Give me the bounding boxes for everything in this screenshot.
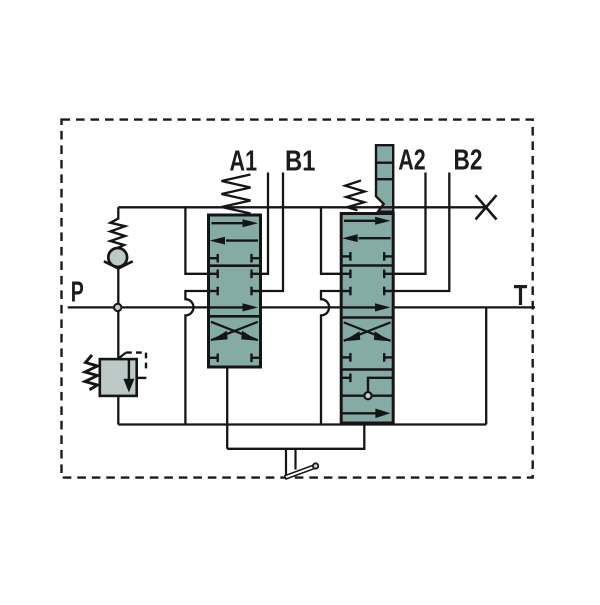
relief valve RV1 internal arrow	[123, 359, 134, 392]
valve V2 position2 P arrow	[341, 303, 390, 311]
junction node on P line	[114, 304, 121, 311]
svg-text:B1: B1	[285, 146, 316, 178]
lever rod	[285, 465, 316, 479]
wire valve1 left lower with hop	[185, 291, 208, 425]
svg-text:P: P	[71, 277, 84, 309]
label A2	[398, 145, 426, 177]
wire B2	[393, 173, 449, 292]
wire valve2 left lower with hop	[321, 291, 341, 425]
wire valve2 left feed	[321, 206, 341, 274]
valve V2 blocked ports row A	[341, 252, 393, 261]
wire valve1 bottom drop	[226, 367, 228, 449]
valve V2 position4 blocked port left	[341, 374, 350, 383]
relief valve RV1 spring	[85, 355, 98, 390]
wire A2	[393, 173, 425, 274]
lever knob	[313, 463, 318, 468]
valve V2 position3 crossed arrows	[344, 322, 391, 341]
check valve seat	[104, 261, 133, 268]
label P	[71, 277, 84, 309]
check valve drop wire	[117, 207, 119, 359]
svg-text:A1: A1	[230, 146, 258, 178]
check valve ball	[108, 248, 127, 267]
wire B1	[260, 173, 283, 292]
valve V1 position3 crossed arrows	[211, 322, 258, 341]
valve V1 blocked ports row B	[209, 270, 261, 279]
valve V1 blocked ports row C	[209, 287, 261, 296]
valve V2 position4 node circle	[364, 392, 371, 399]
envelope dashed border	[62, 120, 533, 478]
valve V1 position1 arrow left	[210, 237, 259, 245]
valve V2 blocked ports row C	[341, 287, 393, 296]
detent above valve V2	[374, 145, 394, 212]
spring of valve V2	[345, 181, 365, 211]
relief valve RV1 body	[100, 359, 137, 396]
label T	[514, 280, 528, 312]
valve V1 blocked ports row A	[209, 254, 261, 263]
label B1	[285, 146, 316, 178]
wire valve1 left feed	[185, 206, 208, 274]
wire lever rail	[227, 425, 364, 449]
valve V2 position1 arrow left	[342, 234, 390, 242]
valve V2 blocked ports row B	[341, 270, 393, 279]
valve V2 blocked ports row D	[341, 353, 393, 362]
valve V1 position1 arrow right	[212, 219, 259, 227]
valve V2 position4 arrow	[341, 409, 390, 419]
wire bottom tank gallery	[118, 423, 486, 425]
wire T drop line	[485, 307, 487, 424]
valve V1 position2 P arrow	[209, 303, 258, 311]
valve V1 blocked ports row D	[209, 354, 261, 363]
lever fork	[286, 449, 296, 477]
svg-text:A2: A2	[398, 145, 426, 177]
relief valve RV1 outlet wire	[117, 396, 119, 425]
valve V2 position4 branch line	[341, 378, 393, 396]
valve V2 body	[341, 214, 393, 424]
wire P line	[68, 306, 535, 308]
plug X at end of gallery	[476, 195, 497, 219]
label B2	[454, 145, 483, 177]
valve V1 body	[209, 215, 261, 367]
label A1	[230, 146, 258, 178]
wire A1	[260, 173, 268, 274]
relief valve RV1 pilot line	[118, 353, 146, 378]
check valve spring	[110, 219, 125, 248]
spring of valve V1	[222, 175, 251, 214]
valve V2 position1 arrow right	[344, 217, 391, 225]
svg-text:B2: B2	[454, 145, 483, 177]
wire top gallery line	[118, 206, 486, 208]
